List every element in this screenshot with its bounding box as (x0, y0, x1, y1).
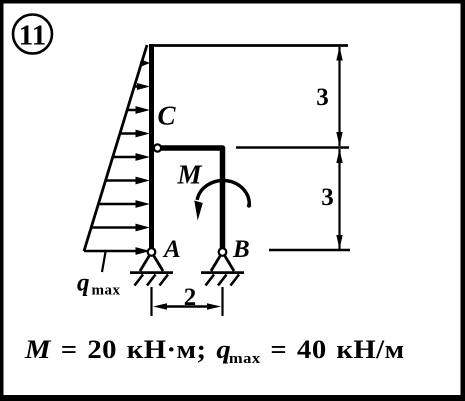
svg-text:C: C (158, 101, 177, 131)
svg-text:A: A (162, 236, 181, 263)
svg-text:M = 20 кН·м; qmax = 40 кН/м: M = 20 кН·м; qmax = 40 кН/м (24, 335, 405, 367)
svg-text:M: M (176, 160, 202, 190)
svg-text:11: 11 (19, 20, 46, 52)
svg-text:B: B (232, 236, 250, 263)
svg-text:3: 3 (321, 184, 334, 211)
svg-text:q: q (77, 270, 90, 297)
svg-text:2: 2 (184, 284, 197, 311)
svg-text:3: 3 (316, 84, 329, 111)
svg-text:max: max (92, 283, 121, 299)
